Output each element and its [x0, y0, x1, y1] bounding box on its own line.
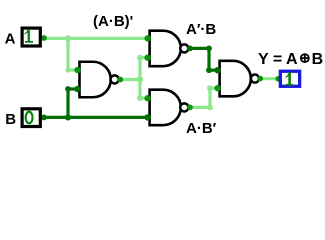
nand U2: [150, 31, 189, 67]
svg-text:A·B′: A·B′: [186, 120, 217, 137]
node dark-path lower corner: [206, 67, 212, 73]
port dot U1 input bottom: [74, 86, 80, 92]
wire A output (value 1): [44, 37, 150, 40]
wire NAND1 output to mid vertical (value 1): [120, 78, 140, 81]
nand U4: [220, 61, 259, 97]
port dot A box output: [41, 35, 47, 41]
port dot U3 input bottom: [144, 114, 150, 120]
port dot U2 input bottom: [144, 55, 150, 61]
port dot output pin: [276, 76, 282, 82]
svg-text:B: B: [5, 111, 16, 128]
wire A branch down to NAND1 top input: [68, 38, 78, 70]
wire stub to NAND3 top input: [140, 97, 150, 100]
wire NAND2 output to NAND4 top input (value 0): [190, 48, 220, 70]
wire NAND3 output to NAND4 bottom input (value 1): [190, 88, 220, 107]
port dot B box output: [41, 115, 47, 121]
svg-text:B: B: [312, 51, 324, 68]
node mid junction: [137, 76, 143, 82]
port dot U4 input bottom: [214, 85, 220, 91]
node mid-vertical bottom corner: [137, 95, 143, 101]
port dot U1 input top: [74, 67, 80, 73]
value 1 in Y box: [286, 72, 293, 86]
value 0 in B box: [26, 112, 33, 124]
svg-text:(A·B)': (A·B)': [93, 13, 133, 30]
node pale-path lower corner: [207, 105, 213, 111]
node B-wire junction: [65, 114, 71, 120]
wire stub to NAND2 bottom input: [140, 56, 150, 59]
svg-text:A′·B: A′·B: [186, 21, 216, 38]
node pale-path upper corner: [207, 85, 213, 91]
port dot U1 output: [117, 77, 123, 83]
output pin Y box (blue): [280, 71, 299, 86]
input pin B box: [22, 109, 40, 127]
xor symbol circle-plus: [301, 54, 309, 62]
port dot U3 input top: [144, 95, 150, 101]
wire mid vertical (A.B)': [138, 58, 141, 98]
node mid-vertical top corner: [137, 55, 143, 61]
svg-text:A: A: [5, 31, 16, 48]
nand U3: [150, 90, 189, 126]
node A-wire junction: [65, 35, 71, 41]
port dot U3 output: [187, 105, 193, 111]
value 1 in A box: [25, 29, 33, 43]
port dot U4 output: [257, 76, 263, 82]
port dot U2 input top: [144, 35, 150, 41]
wire NAND4 output to pin Y (value 1): [260, 77, 280, 80]
svg-text:Y = A: Y = A: [258, 51, 298, 68]
port dot U2 output: [187, 46, 193, 52]
node wire end at U1 top input: [65, 67, 70, 72]
node B-branch corner: [65, 86, 71, 92]
wire B output (value 0): [44, 116, 150, 119]
input pin A box: [22, 28, 40, 46]
port dot U4 input top: [214, 67, 220, 73]
nand U1: [80, 62, 119, 98]
node dark-path upper corner: [206, 46, 212, 52]
wire B branch up to NAND1 bottom input: [68, 89, 78, 117]
